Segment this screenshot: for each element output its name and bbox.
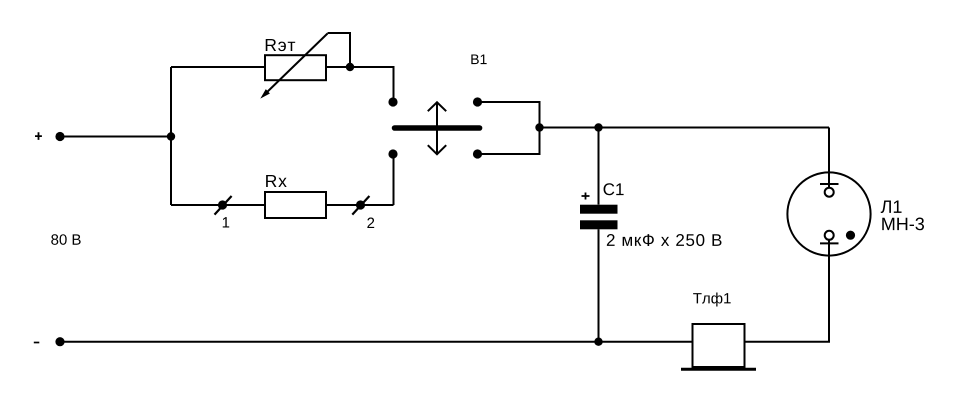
capacitor C1 bottom plate [580,220,618,229]
wire left vertical bus [170,67,172,205]
switch B1 movable bar [395,125,480,131]
lamp bottom pin [825,231,834,240]
label MN-3 [882,218,924,231]
label 2 [367,218,374,228]
lamp top electrode tick [820,183,839,185]
label 80 V [51,234,80,245]
terminal clamp 2 [352,196,369,215]
label C1 value [607,234,722,246]
resistor Rx body [265,192,326,218]
wire switch lower-left to Rx branch [393,158,395,205]
label B1 [471,54,486,64]
wire telephone to lamp [745,256,830,342]
telephone Tlf1 base plate [681,368,756,371]
wire bottom bus [60,341,693,343]
terminal + (plus sign) [35,132,42,140]
node minus terminal dot [55,337,64,346]
wire Ret right to switch [326,67,394,98]
switch B1 actuation arrow [428,102,446,154]
node junction left bus [167,132,175,140]
lamp bottom electrode tick [820,242,839,244]
wire Ret wiper link [328,33,351,67]
label 1 [223,217,229,227]
wire Rx right [326,204,394,206]
lamp gas indicator dot [846,231,855,240]
wire lamp bottom lead [828,240,830,342]
wire C1 top lead [598,128,600,205]
label Tlf1 [693,293,731,307]
wire switch right contacts join [478,102,540,154]
node junction switch output [535,123,543,131]
resistor Ret variable arrow [260,34,327,99]
label Ret [266,39,295,51]
node junction Ret right [346,63,354,71]
terminal - (minus sign) [34,342,40,344]
switch B1 contact upper-left [388,97,397,106]
node junction C1 top [594,123,602,131]
wire Rx branch left [171,204,265,206]
lamp top pin [825,188,834,197]
wire top branch to Ret [171,66,265,68]
telephone Tlf1 body [693,324,745,367]
label L1 [881,201,902,214]
node plus terminal dot [55,132,64,141]
switch B1 contact upper-right [473,97,482,106]
terminal clamp 1 [215,196,232,215]
lamp L1 envelope [787,172,870,255]
wire lamp top lead [828,128,830,188]
wire C1 bottom lead [598,229,600,341]
node junction C1 bottom [594,338,602,346]
switch B1 contact lower-right [473,149,482,158]
capacitor C1 top plate [580,205,618,214]
wire top bus to lamp [540,127,830,129]
switch B1 contact lower-left [388,149,397,158]
label Rx [266,175,287,187]
label C1 [604,183,624,195]
wire plus terminal to left bus [60,136,171,138]
resistor Ret body [265,55,326,80]
capacitor C1 polarity plus [582,193,590,200]
